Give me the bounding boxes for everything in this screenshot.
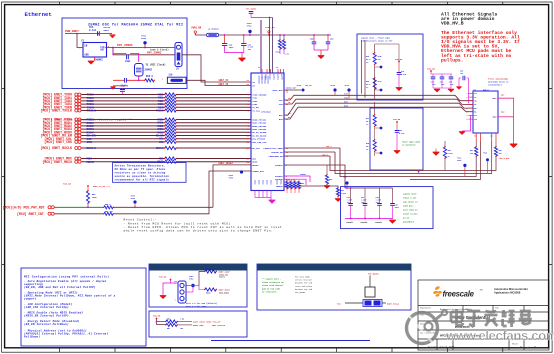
port TXCLK [75,109,78,112]
wire INT to PHY [113,171,251,214]
svg-text:TXP: TXP [344,93,349,96]
capacitor C48 [379,188,381,203]
svg-text:mAMUX_OUT: mAMUX_OUT [286,87,297,90]
capacitor C31 [441,74,443,77]
wire MDIO to PHY [177,161,252,163]
testpoint TP52 [191,284,194,287]
port RX_ER [75,134,78,137]
svg-text:C23: C23 [399,130,402,132]
series resistor TXD2 [165,99,176,102]
wire crystal top [113,54,127,55]
wire LED pulls [475,141,477,147]
svg-text:0.1uF: 0.1uF [89,29,97,32]
svg-text:49.9: 49.9 [366,83,370,86]
freescale logo [433,286,442,296]
port RXD2 [75,124,78,127]
wire PHY_25MHZ lower branch [113,48,175,55]
svg-text:AVDD5: AVDD5 [281,74,284,81]
wire to oscillator pin 1 [77,34,83,48]
svg-text:VDD_HV_B: VDD_HV_B [441,21,464,27]
wire TXD2 [81,100,165,102]
svg-text:TXN: TXN [344,97,349,100]
layout note box RX termination [370,108,423,170]
svg-text:PWR_BR: PWR_BR [393,118,401,121]
wire jumper pwr [163,280,171,296]
series resistor RXDV [165,131,176,134]
capacitor C62 [243,35,245,44]
svg-text:PWR_ENET: PWR_ENET [65,30,79,33]
svg-text:(MDIX_EN Internal PullUP): (MDIX_EN Internal PullUP) [24,314,69,318]
wire power rail [219,34,331,36]
svg-text:PWR1_BR: PWR1_BR [192,27,202,30]
pin RD+ of P2 [469,107,474,109]
svg-text:R38: R38 [366,143,369,145]
pin CT1 of P2 [469,114,474,116]
watermark chinese characters [451,309,463,326]
svg-text:CRS: CRS [87,140,93,144]
capacitor C47 [364,188,366,203]
svg-text:CT2: CT2 [474,119,477,121]
port ENET_INT [48,212,51,215]
capacitor C19 [398,62,400,73]
svg-text:PHY_25MHZ: PHY_25MHZ [246,7,257,10]
series resistor TXD0 [165,93,176,96]
wire bottom rail in osc box [113,85,128,87]
wire LED_SPD [284,155,330,157]
ground at C55 C56 [318,56,324,59]
net ENET_MDIO label [177,321,192,323]
wire TXCLK to PHY [177,110,252,112]
wire TXD1 to PHY [177,97,252,99]
resistor R57 [166,323,177,326]
svg-text:MDIO: MDIO [87,160,94,164]
port TXD0 [75,93,78,96]
testpoint on R39 [380,66,383,69]
svg-text:RD+: RD+ [288,113,291,115]
svg-text:R44A 2.2K: R44A 2.2K [286,179,296,182]
pin CT2 of P2 [469,118,474,120]
ground at R42 [324,186,330,189]
wire RXDV to PHY [177,131,252,133]
svg-text:freescale: freescale [443,290,475,299]
port TXD2 [75,99,78,102]
wire RX_ER [81,135,165,137]
svg-text:resistors as close to driving: resistors as close to driving [115,171,166,175]
ground bypass [389,221,396,224]
svg-text:RD-: RD- [474,112,477,114]
svg-text:ENET_X2: ENET_X2 [219,83,229,86]
svg-text:33pF: 33pF [125,60,131,63]
bypass cap box [341,187,434,229]
wire PWR_ENET rail [65,33,112,35]
wire from J9 to IC XI [182,55,251,82]
svg-text:TXCLK: TXCLK [87,109,96,113]
port MDIO [75,160,78,163]
svg-text:[MCU] ENET_TXCLK: [MCU] ENET_TXCLK [40,109,72,113]
svg-text:(MII_Mode): (MII_Mode) [219,292,229,294]
svg-text:PHY_50MHz: PHY_50MHz [295,291,305,294]
capacitor C32 [450,74,452,77]
wire PHY_50MHz [369,276,371,288]
svg-text:ENET_TX_EN ???: ENET_TX_EN ??? [93,185,111,188]
wire CRS [81,141,165,143]
wire RXD2 to PHY [177,125,252,127]
resistor R39 [374,44,376,53]
svg-text:PHY_25MHZ: PHY_25MHZ [147,52,162,55]
wire MDIO [81,161,165,163]
svg-text:RD+: RD+ [474,108,477,110]
resistor R56 [166,320,177,323]
wire vertical feed B [364,40,366,98]
svg-text:(SMII_Mode Internal PullDown,: (SMII_Mode Internal PullDown, MII_Mode c… [24,294,116,298]
wire caps to ground [225,52,244,54]
wire lavender crystal feed [260,20,262,73]
svg-text:RXCLK: RXCLK [156,147,164,150]
wire caps bottom [433,87,451,89]
svg-text:Applications MC9S08: Applications MC9S08 [494,291,521,295]
svg-text:3: 3 [467,101,468,103]
wire TXD2 to PHY [177,100,252,102]
svg-text:Department:: Department: [420,307,431,310]
resistor R59 [87,186,89,191]
wire TXEN to PHY [177,106,252,108]
svg-text:PHY_25MHZ: PHY_25MHZ [117,44,133,47]
svg-text:TP45: TP45 [297,84,301,87]
layout note box with termination resistors [357,34,423,100]
svg-text:10uF: 10uF [395,207,399,209]
pin TD- of P2 [469,103,474,105]
port MDC [75,157,78,160]
IC top pin stubs [261,69,263,73]
svg-text:10uF: 10uF [229,46,235,49]
testpoint on R38 [380,152,383,155]
resistor R45 [443,147,446,158]
svg-text:R58 0: R58 0 [146,75,154,78]
svg-text:CRS: CRS [159,141,164,144]
series termination note box [113,163,187,183]
svg-text:GND: GND [85,53,90,56]
svg-text:1:1: 1:1 [490,136,493,138]
svg-text:TP54: TP54 [141,37,147,40]
svg-text:ENET_MDC: ENET_MDC [193,324,204,327]
wire TXEN [81,106,165,108]
svg-text:** 1 Ohm - See Layout Note (bo: ** 1 Ohm - See Layout Note (bottom right… [45,118,133,121]
ground bottom left osc box [112,50,114,55]
svg-text:5: 5 [467,108,468,110]
svg-text:RBIAS: RBIAS [276,185,283,188]
ground at jumper [160,296,166,299]
svg-text:PFBIN2b: PFBIN2b [361,222,368,224]
svg-text:GND1: GND1 [492,98,496,100]
wire AMUX_OUT [284,89,301,91]
net ENET_MDC label [177,324,192,326]
wire RX_ER to PHY [177,135,252,137]
svg-text:R48: R48 [499,149,502,152]
wire LED_ACT [284,147,340,149]
series resistor RXD3 [165,128,176,131]
resistor R21 body [365,287,375,297]
svg-text:1: 1 [467,93,468,95]
wire RBIAS [284,186,338,188]
capacitor C56 [127,55,129,60]
svg-text:R56: R56 [167,319,170,321]
series resistor TXEN [165,106,176,109]
wire RXD0 [81,119,165,121]
svg-text:C19: C19 [401,71,404,73]
wire TXD0 [81,94,165,96]
port MCU_PHY [48,206,51,209]
svg-text:R39: R39 [366,56,369,58]
oscillator Y2 [83,43,107,58]
blue separator [211,340,370,342]
wire vertical feed A [361,40,363,94]
testpoint TP39 [347,88,350,91]
port CRS [75,140,78,143]
resistor R37 [374,102,376,115]
svg-text:R51 10K: R51 10K [105,211,113,213]
wire TXD1 [81,97,165,99]
resistor R52A [199,272,205,286]
config notes box [21,268,146,346]
svg-text:ENET_SNAP: ENET_SNAP [219,270,231,273]
series resistor MDIO [165,160,176,163]
svg-text:TP41: TP41 [378,80,382,83]
wire RXDV [81,131,165,133]
wire TXD3 to PHY [177,103,252,105]
svg-text:GND2: GND2 [492,117,496,119]
svg-text:TC-: TC- [474,97,477,99]
svg-text:PWR1_BR: PWR1_BR [265,26,275,29]
wire PHY_25MHZ from oscillator [106,47,175,49]
wire RXD1 [81,122,165,124]
ground at shield [510,145,517,149]
svg-text:RD-: RD- [288,117,291,119]
svg-text:1: 1 [174,283,175,285]
svg-text:R49: R49 [341,189,344,192]
svg-text:GND1: GND1 [104,29,110,32]
svg-text:3: 3 [174,300,175,302]
capacitor C60 [224,35,226,44]
svg-text:25MHZOUT: 25MHZOUT [258,76,260,86]
wire PFBOUT [284,165,345,188]
svg-text:DP83848: DP83848 [261,111,271,114]
svg-text:TP59: TP59 [131,198,135,200]
svg-text:TXCLK: TXCLK [156,110,164,113]
port COL [75,137,78,140]
svg-text:AMUX_OUT: AMUX_OUT [272,89,283,92]
resistor R33A [279,35,281,40]
svg-text:jumper): jumper) [23,297,37,301]
wire TXD3 [81,103,165,105]
wire TXN to magnetics [284,99,473,104]
svg-text:49.9: 49.9 [366,58,370,61]
oscillator section box [62,18,187,89]
svg-text:RXCLK: RXCLK [87,146,96,150]
testpoint TP38 [333,88,336,91]
svg-text:AVDD3: AVDD3 [273,74,276,81]
svg-text:49.9: 49.9 [366,120,370,123]
wire from J10 to IC XO [186,80,251,85]
svg-text:PWR_BR: PWR_BR [153,315,161,318]
capacitor C56 [327,35,329,42]
wire LED_LNK [284,151,335,153]
wire RXD1 to PHY [177,122,252,124]
svg-text:TP55: TP55 [229,178,233,180]
wire green reset [55,206,105,208]
svg-text:PFBIN1: PFBIN1 [300,174,306,176]
svg-text:[MCU] ENET_INT: [MCU] ENET_INT [17,212,44,216]
svg-text:TM: TM [480,290,483,292]
testpoint TP45 [302,89,305,92]
svg-text:[MCU] ENET_RXCLK: [MCU] ENET_RXCLK [40,146,72,150]
svg-text:330: 330 [470,153,473,155]
resistor R52B [199,286,205,290]
svg-text:Place 0.1uF: Place 0.1uF [403,197,417,200]
wire CT pink to ground [462,115,471,131]
testpoint TP57 [240,170,243,173]
series resistor CRS [165,140,176,143]
svg-text:and Resistors close to PHY: and Resistors close to PHY [361,39,393,42]
pin RD- of P2 [469,111,474,113]
testpoint TP58 [133,200,136,203]
resistor R38 [373,140,376,151]
wire PFBIN1 [284,176,310,182]
svg-text:LEDACT/COL_ANEN: LEDACT/COL_ANEN [263,147,283,150]
wire TXP to magnetics [284,95,473,100]
svg-text:30: 30 [276,67,278,69]
svg-text:(LED_CFG Internal PullUp): (LED_CFG Internal PullUp) [24,305,69,309]
wire MDC [81,158,165,160]
svg-text:Series Termination Resistors,: Series Termination Resistors, [115,164,166,168]
series resistor COL [165,137,176,140]
svg-text:LEDSPEED_EN: LEDSPEED_EN [269,155,284,158]
svg-text:- Reset from MCU Reset for (wi: - Reset from MCU Reset for (will reset w… [124,221,231,225]
svg-text:T41: T41 [378,58,381,61]
svg-text:RX_CLK: RX_CLK [252,147,260,150]
port RXD1 [75,121,78,124]
jumper pads R21 [363,300,382,307]
svg-text:(1uF TANT as: (1uF TANT as [403,209,418,212]
svg-text:TP40: TP40 [378,55,382,58]
jumper J9 [175,43,182,67]
series resistor TXCLK [165,109,176,112]
svg-text:TD+: TD+ [474,101,477,103]
svg-text:PFBOUTb: PFBOUTb [375,222,382,224]
svg-text:R40: R40 [366,80,369,83]
svg-text:TD+: TD+ [288,98,291,100]
wire RESET vertical [213,165,251,207]
wire RXN to magnetics [284,107,473,119]
series resistor TXD3 [165,103,176,106]
svg-text:ENET_TXCLK: ENET_TXCLK [387,302,400,305]
port TXEN [75,106,78,109]
resistor R47 LED [475,147,478,156]
ground at C19 [396,88,402,91]
svg-text:PWRDN_INT: PWRDN_INT [252,170,264,173]
resistor R33B [283,35,285,40]
wire R39 top rail [375,44,399,62]
svg-text:0.1uF: 0.1uF [401,74,406,76]
svg-text:2: 2 [467,97,468,99]
svg-text:50MHZ: 50MHZ [95,58,103,61]
wire mdio pullups [157,319,167,325]
series resistor TXD1 [165,96,176,99]
svg-text:www.elecfans.com: www.elecfans.com [445,328,554,343]
capacitor C44 [350,188,352,203]
svg-text:Pins 2-3 for SMII: Pins 2-3 for SMII [186,305,207,308]
wire cap to ground [99,33,112,35]
wire PFBIN2 [284,179,306,185]
svg-text:MII Configuration (using PHY i: MII Configuration (using PHY internal Pu… [24,275,109,279]
port TXD1 [75,96,78,99]
svg-text:TP46: TP46 [457,159,461,162]
wire RXP to magnetics [284,103,473,115]
wire MDC to PHY [177,158,252,160]
testpoint TP47 [345,181,348,184]
ground at Y2 [94,57,96,61]
svg-text:23 as: 23 as [403,217,410,220]
capacitor C55 [313,35,315,42]
wire IC bottom grounds [254,190,256,198]
svg-text:each pin.: each pin. [403,205,414,208]
resistor network R44 right of IC [285,182,288,189]
svg-text:R45: R45 [448,149,451,152]
wire RXCLK [81,147,165,149]
svg-text:AVDD4: AVDD4 [277,74,280,81]
svg-text:[MCU] ENET_MDIO: [MCU] ENET_MDIO [42,160,72,164]
svg-text:AVDD2: AVDD2 [269,74,272,81]
watermark magnifier [407,309,554,344]
svg-text:Automotive Microcontroller: Automotive Microcontroller [494,287,528,291]
svg-text:R52A 0: R52A 0 [206,267,212,270]
svg-text:PFBIN1b: PFBIN1b [346,222,353,224]
svg-text:PFBOUT: PFBOUT [275,164,283,167]
wire LED verticals [330,156,410,171]
resistor R50 [104,206,113,209]
ground decoupling 2 [448,90,454,93]
svg-text:25MHZ OSC for MAC5604 25MHZ XT: 25MHZ OSC for MAC5604 25MHZ XTAL for MII [88,23,183,28]
svg-text:RXN: RXN [344,105,349,108]
svg-text:TC: TC [474,136,476,138]
svg-text:TC+: TC+ [474,93,477,95]
wire GND2 to cap [498,116,514,118]
svg-text:MDIO: MDIO [157,161,164,164]
svg-text:PWR_BR: PWR_BR [63,183,72,186]
svg-text:Y2: Y2 [81,40,85,43]
SMII layout note box [257,264,411,310]
svg-text:TP47: TP47 [343,176,347,179]
capacitor C30 [432,74,434,77]
capacitor C38 [392,188,394,203]
svg-text:PWR_B_OFF: PWR_B_OFF [499,157,511,160]
ground at C60 C62 [238,59,245,62]
svg-text:AVDD0: AVDD0 [261,74,264,81]
svg-text:recommended for all MII signal: recommended for all MII signals [115,178,170,182]
svg-text:R47: R47 [470,149,473,152]
wire purple verticals to IC top [269,18,271,74]
svg-text:Tuesday, July 14, 2015: Tuesday, July 14, 2015 [428,345,455,349]
svg-text:Ethernet: Ethernet [25,11,52,18]
wire RXCLK to PHY [177,147,252,149]
port RXDV [75,131,78,134]
svg-text:7: 7 [467,115,468,117]
capacitor C57 [125,78,127,83]
svg-text:TD-: TD- [474,104,477,106]
svg-text:R57: R57 [167,328,170,330]
svg-text:J10: J10 [168,74,173,77]
resistor R40 [373,78,376,89]
pin TC- of P2 [469,96,474,98]
